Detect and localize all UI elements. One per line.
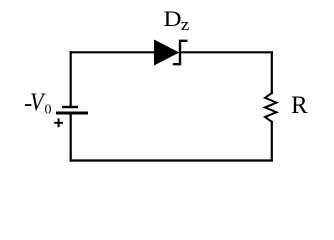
svg-text:0: 0 bbox=[45, 103, 52, 118]
svg-text:D: D bbox=[164, 6, 182, 31]
svg-text:R: R bbox=[291, 92, 308, 119]
svg-text:z: z bbox=[181, 15, 190, 34]
